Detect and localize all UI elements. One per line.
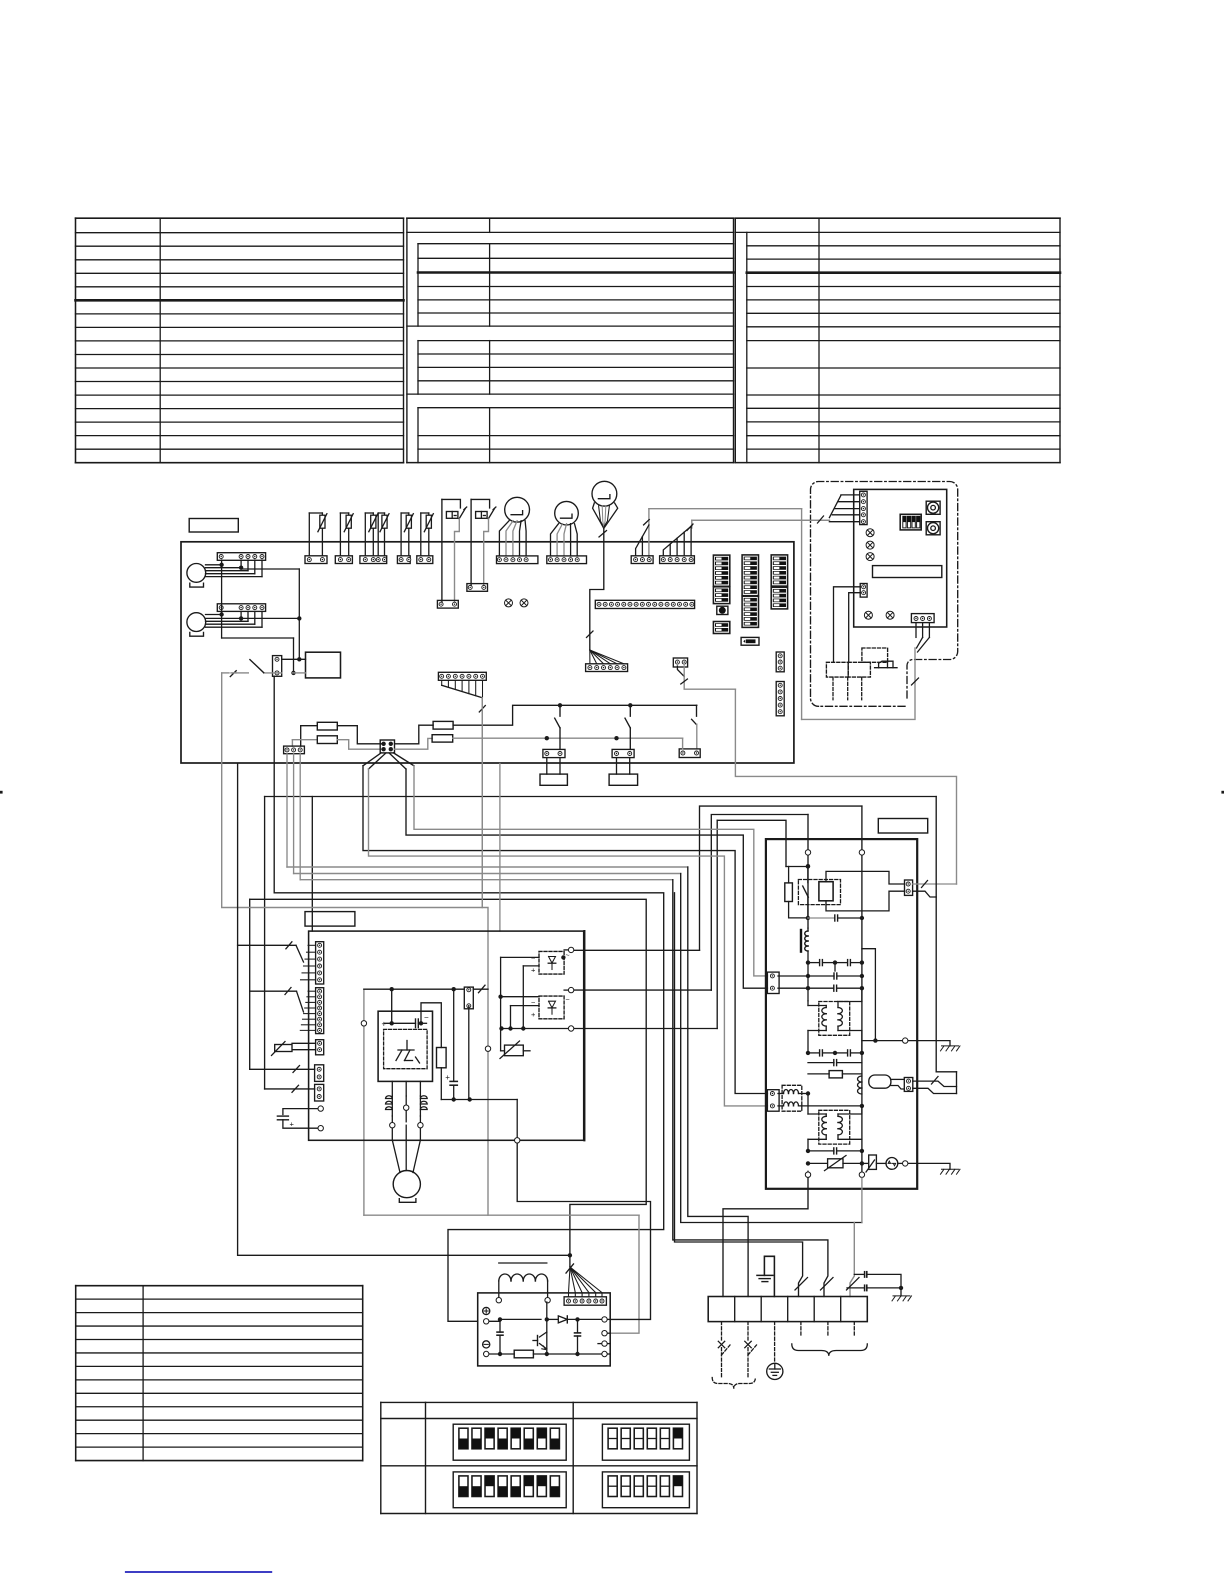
common mode choke T2 dashed bbox=[819, 1002, 850, 1036]
relay contact block 4-pin bbox=[380, 740, 394, 753]
connector CNP2 (2-pin) on left edge lower bbox=[767, 1090, 779, 1112]
wires CNC down cable bbox=[915, 623, 917, 638]
wires CNB to terminal blocks bbox=[834, 587, 861, 663]
capacitor row y918 bbox=[806, 916, 810, 920]
rectifier diode module D2 dashed bbox=[539, 996, 564, 1019]
breaker x marks bbox=[718, 1341, 724, 1347]
T4 coils bbox=[807, 1094, 809, 1115]
potentiometer VR2 bbox=[926, 522, 940, 535]
PFC right terminals bbox=[602, 1317, 607, 1322]
T2 coils bbox=[807, 1001, 809, 1006]
wire rectifier A to power bus R bbox=[700, 806, 862, 950]
wire relay-fan3 to CNP2 pin1 bbox=[363, 766, 767, 1094]
terminal mark X1 bbox=[505, 599, 513, 607]
wire fan common vertical bbox=[221, 565, 223, 638]
dashed terminal box upper bbox=[862, 648, 888, 662]
connector CNI4 (2-pin) from kappa bbox=[315, 1065, 324, 1082]
wires CNQ to W1 bbox=[913, 1081, 957, 1086]
svg-text:~: ~ bbox=[566, 953, 570, 960]
DC bus top bbox=[364, 988, 464, 990]
rectifier DC bus wiring bbox=[501, 956, 539, 958]
thermistor TH-inv + connector CNI3 bbox=[316, 1040, 324, 1055]
dashed leads below terminal cells 1-3 bbox=[721, 1322, 723, 1340]
inverter PCB outline bbox=[309, 931, 584, 1140]
resistor R-pw bbox=[808, 1073, 829, 1075]
label box PCB name bbox=[189, 519, 238, 533]
feed-through circle bus R bbox=[859, 850, 864, 855]
switch contact on gray wire bbox=[264, 672, 282, 674]
capacitor row y963 double bbox=[806, 960, 810, 964]
pressure switch 63H2 bbox=[471, 499, 490, 508]
AC input line C bbox=[568, 1026, 573, 1031]
terminal mark X2 bbox=[520, 599, 528, 607]
wires SV2 to connector bbox=[551, 524, 559, 556]
wire F3 east bbox=[453, 705, 697, 725]
wire CN2 pin1 to terminal cell2 bbox=[286, 754, 288, 867]
transformer T1 bbox=[807, 928, 809, 931]
DIP switch stack SW-B2 bbox=[742, 596, 758, 627]
connector CNI6 (2-pin vertical) bbox=[464, 987, 473, 1009]
fan motor MF2 bbox=[187, 613, 206, 632]
connector CNI5 (2-pin) from W1 bbox=[315, 1084, 324, 1101]
thermistor TH5 + connector bbox=[400, 513, 402, 556]
feed-through circles bottom buses bbox=[805, 1172, 810, 1177]
connector CN2 (3-pin) bbox=[284, 746, 305, 754]
earth lead above cell3 bbox=[764, 1256, 774, 1296]
Y-capacitors to chassis bbox=[854, 1273, 863, 1275]
terminal mark X5 bbox=[866, 553, 874, 561]
fuse F4 bbox=[432, 735, 453, 742]
svg-text:−: − bbox=[424, 1013, 429, 1022]
resistor R-inv path bbox=[421, 1003, 441, 1048]
label box inverter bbox=[305, 912, 355, 927]
capacitor row y989 bbox=[778, 987, 808, 989]
wire rectifier C to relay contact bbox=[716, 820, 718, 1028]
switch SW3 + connector bbox=[696, 705, 698, 716]
connector CN8 (5-pin vertical) bbox=[776, 682, 784, 716]
svg-text:~: ~ bbox=[566, 997, 570, 1004]
common mode choke T4 dashed bbox=[819, 1110, 850, 1144]
fuse F3 bbox=[433, 721, 453, 729]
connector CNP (2-pin) on left edge bbox=[767, 972, 779, 993]
LED / jumper box bbox=[717, 606, 728, 614]
svg-text:+: + bbox=[531, 966, 536, 975]
interface unit dash-dot enclosure bbox=[819, 705, 906, 707]
capacitor C6 vertical bbox=[577, 1319, 579, 1333]
connector CN SV2 (8-pin) bbox=[547, 556, 587, 564]
wire gray switch net to cell2-area and PFC bbox=[222, 673, 488, 1215]
feed-through circle left2 bbox=[318, 1126, 323, 1131]
feed-through circle on gray W2 bbox=[361, 1021, 366, 1026]
connector CN fan1 (5-pin) bbox=[217, 553, 265, 561]
ground symbol interface bbox=[879, 661, 893, 668]
wire F4 east gray (N line) bbox=[453, 737, 683, 739]
pressure switch 63H1 bbox=[442, 499, 461, 508]
connector CNF (6-pin) with fan harness bbox=[564, 1297, 606, 1305]
AC input line B bbox=[568, 987, 573, 992]
protective earth circle symbol bbox=[767, 1363, 783, 1379]
dashed terminal box row bbox=[826, 662, 848, 677]
feed-through circle left1 bbox=[318, 1106, 323, 1111]
connector CN fan2 (5-pin) bbox=[217, 604, 265, 612]
label box interface bbox=[873, 566, 942, 578]
terminal mark X4 bbox=[866, 541, 874, 549]
wire relay-fan1 to CNP pin1 gray bbox=[414, 766, 767, 976]
DIP switch drawing B row1 bbox=[602, 1424, 689, 1460]
bus L exit to terminal cell1 bbox=[723, 1178, 808, 1296]
wire CN4 harness down bbox=[481, 698, 483, 908]
relay K1 coil bbox=[819, 882, 833, 901]
DIP switch stack SW-C2 bbox=[771, 587, 787, 609]
fuse F2 bbox=[317, 736, 337, 744]
DIP switch box SW-A3 (2 rows) bbox=[713, 622, 729, 634]
connector CN5 (3-pin) + riser bbox=[648, 509, 650, 560]
label box power board bbox=[878, 819, 927, 834]
svg-text:+: + bbox=[531, 1010, 536, 1019]
wire N to SW3 gray bbox=[682, 738, 684, 749]
relay K1 dashed box bbox=[798, 880, 840, 905]
wire relay to F3 bbox=[395, 725, 434, 744]
relay fan-out wires bbox=[363, 753, 381, 766]
wire CN2 pin3 to terminal cell5 bbox=[299, 754, 301, 880]
terminal block TB1 (6 cells) bbox=[708, 1297, 867, 1322]
DIP switch drawing B row2 bbox=[602, 1472, 689, 1508]
bottom-left legend table bbox=[76, 1285, 363, 1287]
circled plus terminal bbox=[483, 1307, 490, 1314]
relay coil wiring to CNK bbox=[826, 871, 905, 884]
solenoid valve coil SV3 (4-way valve) bbox=[592, 481, 617, 506]
connector CN SV1 (8-pin) bbox=[497, 556, 538, 564]
wire F2 to relay gray bbox=[337, 740, 383, 750]
inverter outputs U V W bbox=[391, 1081, 393, 1096]
connector CN power 2-pin vertical bbox=[273, 656, 282, 677]
wire bus L feed bbox=[807, 815, 809, 850]
terminal mark X3 bbox=[866, 529, 874, 537]
IGBT Q1 bbox=[546, 1302, 548, 1319]
connector CNI1 (6-pin vertical) with cable bbox=[316, 942, 324, 984]
connector CN-remote (2-pin) with cable to W2 bbox=[673, 658, 687, 667]
IGBT symbol bbox=[398, 1049, 414, 1051]
reactor coil L3 above box bbox=[496, 1298, 501, 1303]
circled minus terminal bbox=[483, 1341, 490, 1348]
resistor bypass R1 bbox=[806, 864, 810, 868]
wire bus R feed bbox=[861, 806, 863, 849]
capacitor C5 vertical bbox=[499, 1321, 501, 1332]
connector CNI2 (8-pin vertical) with cable bbox=[316, 988, 324, 1034]
brace power supply bbox=[712, 1378, 755, 1389]
legend table C (right) bbox=[76, 217, 404, 219]
electrolytic cap C2 bbox=[453, 989, 455, 1081]
DIP switch setting table bbox=[381, 1401, 697, 1403]
common mode choke T3 dashed horizontal bbox=[782, 1085, 802, 1111]
wires MF2 to CN fan2 bbox=[206, 614, 222, 616]
PFC top bus bbox=[490, 1319, 500, 1321]
wire relay to F4 gray bbox=[395, 738, 433, 749]
capacitor row y1053 double bbox=[806, 1051, 810, 1055]
blue underline mark bbox=[126, 1571, 271, 1573]
chassis ground symbol G1 bbox=[941, 1046, 961, 1051]
thermistor TH1 + connector bbox=[308, 513, 310, 556]
fan motor MF1 bbox=[187, 564, 206, 583]
wire line A to interface bbox=[649, 508, 802, 510]
wire funnel SV3 bbox=[593, 503, 604, 528]
electrolytic capacitor C-inv bbox=[283, 1109, 317, 1115]
terminal mark X7 bbox=[886, 611, 894, 619]
dashed leads below terminal cells 4-6 bbox=[800, 1322, 802, 1337]
wires cable to CNA bbox=[841, 494, 860, 496]
dashed wires below terminal boxes bbox=[832, 677, 834, 700]
filter cartouche bbox=[869, 1075, 891, 1088]
breaker dashed symbol bbox=[721, 1348, 723, 1379]
relay K1 contact on bus L bbox=[807, 867, 809, 883]
rectifier diode module D1 dashed bbox=[539, 951, 564, 974]
PFC booster box outline bbox=[478, 1293, 611, 1366]
chassis ground symbol G2 bbox=[941, 1169, 961, 1174]
connector CN 63H2 bbox=[467, 584, 488, 592]
inductor L-pw on bus bbox=[858, 1076, 862, 1082]
wire 6pin cable via left bbox=[238, 764, 296, 945]
solenoid valve coil SV2 bbox=[555, 501, 579, 525]
wire iota to PFC plus input bbox=[274, 676, 664, 1321]
AC input line A bbox=[568, 947, 573, 952]
connector CNA (5-pin vertical) bbox=[860, 491, 867, 524]
DIP switch drawing A row1 bbox=[453, 1424, 566, 1460]
connector CNC (3-pin) bbox=[911, 614, 934, 623]
switch SW 52C1 + connector + load bbox=[558, 703, 562, 707]
connector CN3 (6-pin) harness fan bbox=[589, 650, 591, 664]
wires CNK to mains cable bbox=[913, 883, 957, 885]
PFC bottom bus bbox=[490, 1353, 515, 1355]
terminal mark X6 bbox=[864, 611, 872, 619]
bus N exit bbox=[861, 1178, 863, 1222]
DIP switch stack SW-C1 bbox=[771, 555, 787, 586]
chassis ground symbol G3 bbox=[892, 1296, 912, 1301]
connector CN 63H1 bbox=[437, 600, 458, 608]
capacitor row y976 bbox=[806, 974, 810, 978]
wire fan speed chain bbox=[241, 568, 299, 570]
bottom bus 1099 bbox=[441, 1099, 517, 1101]
connector CN7 (3-pin vertical) bbox=[776, 652, 784, 672]
thermistor TH-fin bbox=[505, 1045, 524, 1056]
wire W1 mains to inverter CNI5 bbox=[265, 796, 937, 798]
wire line A to CN5 path bbox=[801, 509, 803, 720]
thermistor TH3 TH4 + connector bbox=[364, 513, 366, 556]
bypass to chassis ground1 bbox=[862, 949, 876, 1041]
input circle bottom bbox=[484, 1351, 489, 1356]
wire W1 down right side bbox=[935, 797, 937, 1072]
wires to compressor motor bbox=[392, 1129, 400, 1173]
wire line B to interface bbox=[692, 519, 830, 521]
IGBT module outline bbox=[378, 1011, 432, 1081]
DIP switch 4-gang on interface bbox=[900, 514, 921, 530]
wire relay-fan2 to CNP pin2 bbox=[406, 769, 767, 988]
wire kappa to inverter CNI4 and PFC fan bbox=[250, 899, 647, 1267]
wire fuse2 feed gray bbox=[292, 739, 317, 741]
wire CN to transformer box bbox=[282, 658, 306, 660]
wire relay-fan4 to CNP2 pin2 bbox=[369, 769, 768, 1106]
svg-text:+: + bbox=[382, 1020, 387, 1029]
capacitor row y1151 bbox=[806, 1149, 810, 1153]
compressor motor CM bbox=[393, 1171, 420, 1198]
connector CNK (2-pin vertical) bbox=[905, 880, 913, 895]
edge tick right bbox=[1221, 791, 1224, 794]
wire SV aux down bbox=[499, 764, 501, 932]
svg-text:+: + bbox=[290, 1120, 295, 1129]
diode D5 bbox=[547, 1318, 559, 1320]
connector CNB (2-pin vertical) bbox=[860, 584, 867, 598]
edge tick left bbox=[0, 791, 3, 794]
solenoid valve coil SV1 bbox=[505, 497, 530, 522]
wire branch to terminal cell4 bbox=[675, 893, 803, 1297]
DIP switch drawing A row2 bbox=[453, 1472, 566, 1508]
thermistor TH6 + connector bbox=[420, 513, 422, 556]
varistor row y1163 with current sensor bbox=[806, 1161, 810, 1165]
wire CN2 pin2 to terminal cell6 bbox=[293, 754, 295, 874]
potentiometer VR1 bbox=[926, 501, 940, 514]
module top wiring + capacitor bbox=[391, 989, 393, 1023]
wire fuse feed bbox=[301, 725, 318, 727]
small horizontal DIP SW-D bbox=[741, 637, 759, 645]
interface PCB outline bbox=[854, 489, 947, 627]
feed-through circles outputs bbox=[404, 1105, 409, 1110]
fuse F1 bbox=[317, 722, 337, 730]
connector CN4 (7-pin) + harness bundle bbox=[438, 672, 486, 680]
connector CN6 (5-pin) + riser bbox=[691, 520, 693, 528]
connector CNQ (2-pin vertical) right bbox=[904, 1078, 913, 1092]
current transformer L1 bbox=[391, 1096, 393, 1116]
DIP switch stack SW-B1 bbox=[742, 555, 758, 596]
DIP switch stack SW-A1 bbox=[713, 555, 729, 586]
wire rectifier B to power bus L bbox=[711, 815, 808, 991]
switch SW 52C2 + connector + load bbox=[628, 703, 632, 707]
connector CN10 (16-pin) bbox=[595, 600, 694, 608]
power filter board outline bbox=[766, 839, 917, 1189]
DIP switch stack SW-A2 bbox=[713, 587, 729, 604]
ground symbol on earth lead bbox=[757, 1274, 773, 1276]
current transformer L2 bbox=[419, 1096, 421, 1116]
thermistor TH2 + connector bbox=[339, 513, 341, 556]
wire W2 gray loop bbox=[735, 689, 956, 884]
wires MF1 to CN fan1 bbox=[206, 564, 222, 566]
wire CN4 harness down bbox=[481, 698, 483, 908]
input circle top bbox=[484, 1319, 489, 1324]
brace to indoor unit bbox=[792, 1344, 868, 1356]
main control PCB outline bbox=[181, 542, 794, 763]
wire inverter output sense to PFC bbox=[517, 1140, 650, 1319]
wire F1 to relay bbox=[337, 726, 383, 744]
wire SV3 to CN3 with cable slash bbox=[590, 528, 604, 650]
transformer box TB bbox=[306, 652, 341, 678]
capacitor row y1063 bbox=[808, 1062, 834, 1064]
wires SV1 to connector bbox=[499, 521, 509, 556]
